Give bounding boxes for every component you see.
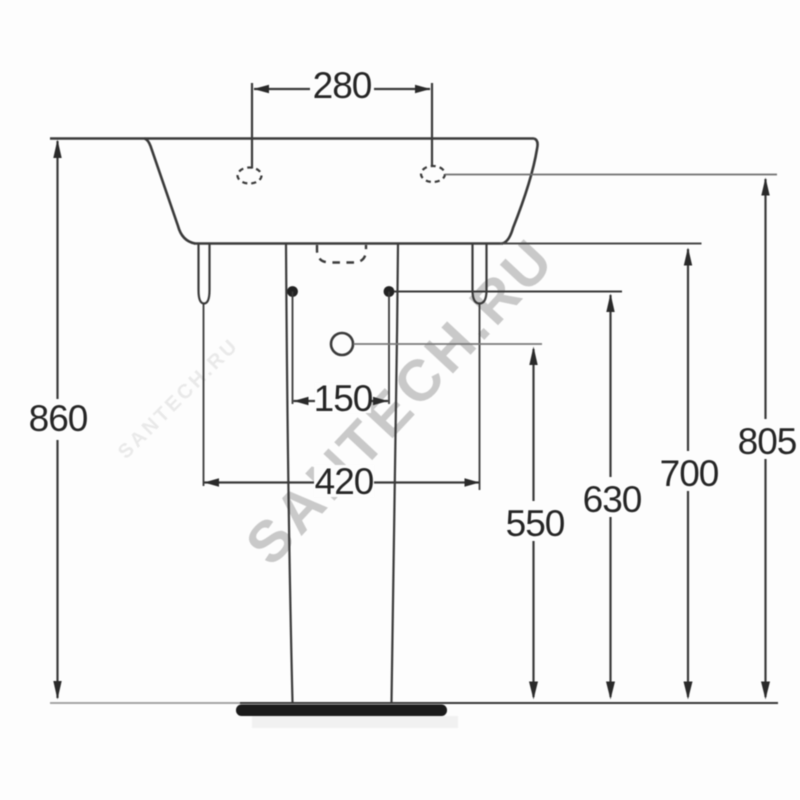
pedestal base bar <box>236 705 447 717</box>
right dot extension line <box>388 292 390 405</box>
svg-text:550: 550 <box>506 503 565 544</box>
left slot extension line <box>203 304 205 487</box>
pedestal left edge <box>286 244 293 702</box>
svg-text:150: 150 <box>314 378 373 419</box>
dim 860 line <box>56 141 58 399</box>
washbasin left edge <box>145 139 196 244</box>
dim 150 line and arrows <box>294 400 389 402</box>
svg-text:630: 630 <box>583 479 642 520</box>
left tap hole dashed ellipse <box>238 168 262 184</box>
right dot level line to 630 dim <box>394 291 622 293</box>
svg-text:280: 280 <box>313 65 372 106</box>
dim 630 line <box>609 295 611 477</box>
dim 700 line <box>687 249 689 451</box>
tap hole level reference line <box>445 174 777 176</box>
washbasin right edge <box>502 139 538 244</box>
dim 420 line and arrows <box>204 481 480 483</box>
svg-text:860: 860 <box>29 398 88 439</box>
pedestal right edge <box>392 244 399 702</box>
left mounting dot <box>287 286 298 297</box>
dim 280 line and arrows <box>254 88 310 90</box>
dim 805 line <box>764 179 766 419</box>
svg-text:SANTECH.RU: SANTECH.RU <box>114 334 243 463</box>
right tap hole dashed ellipse <box>421 166 445 182</box>
dim 280 right tick <box>431 83 433 167</box>
dim 550 line <box>532 349 534 501</box>
dim 280 left tick <box>251 83 253 169</box>
right fixing slot <box>473 244 487 304</box>
svg-text:700: 700 <box>660 453 719 494</box>
faint smudge under base bar <box>252 716 458 728</box>
svg-text:420: 420 <box>315 461 374 502</box>
bottom edge extension to 700 dim <box>500 243 702 245</box>
siphon level line to 550 dim <box>354 343 543 345</box>
svg-text:805: 805 <box>738 421 797 462</box>
overflow dashed outline <box>317 245 366 263</box>
floor line <box>50 702 240 704</box>
left dot extension line <box>292 292 294 405</box>
top reference line (sink top) <box>50 137 534 139</box>
right slot extension line <box>479 304 481 491</box>
watermark big SANTECH.RU <box>233 226 567 578</box>
right mounting dot <box>384 286 395 297</box>
siphon circle <box>331 333 353 355</box>
washbasin bottom edge <box>194 242 503 244</box>
watermark small tile upper-left <box>114 334 243 463</box>
left fixing slot <box>199 244 210 304</box>
